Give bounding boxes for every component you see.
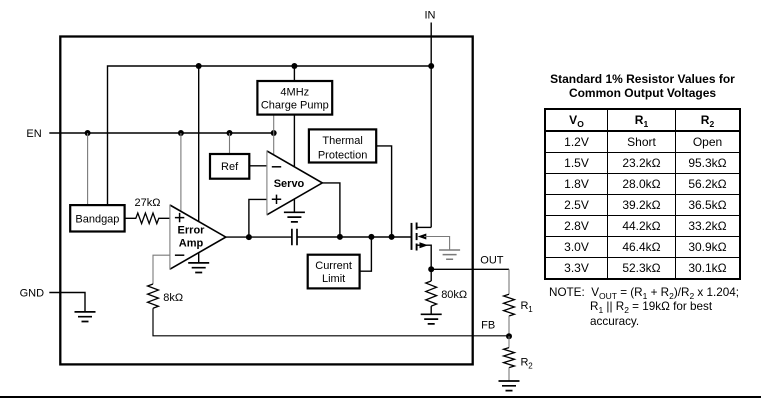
- pin OUT label: [480, 254, 504, 266]
- node gate / current limit: [368, 234, 374, 240]
- node OUT: [428, 266, 434, 272]
- node top-rail / IN: [428, 63, 434, 69]
- transistor source arrow: [420, 242, 429, 248]
- wire gate line: [297, 236, 412, 238]
- svg-text:Ref: Ref: [221, 161, 239, 173]
- resistor R2 zigzag: [504, 348, 515, 368]
- servo plus: [272, 195, 281, 204]
- svg-text:Protection: Protection: [318, 149, 368, 161]
- svg-text:80kΩ: 80kΩ: [441, 289, 467, 301]
- wire 8k to FB: [153, 308, 509, 336]
- wire charge pump to EN node to servo top: [273, 115, 275, 156]
- pin EN label: [26, 128, 41, 140]
- svg-text:Current: Current: [315, 260, 352, 272]
- wire EN to ref box: [229, 133, 231, 154]
- ground symbol R2: [499, 381, 520, 391]
- resistor value table: [540, 72, 745, 280]
- node top-rail / charge-pump: [291, 63, 297, 69]
- wire error amp supply from top rail: [198, 66, 200, 221]
- svg-text:Servo: Servo: [274, 178, 305, 190]
- wire thermal protection to gate: [376, 146, 391, 237]
- capacitor plates: [292, 229, 297, 246]
- resistor R2 label: [521, 357, 534, 371]
- transistor body arrow: [418, 234, 427, 240]
- ground symbol servo: [284, 212, 305, 222]
- wire minus input to 8k: [153, 255, 170, 284]
- node gate / servo: [337, 234, 343, 240]
- svg-text:1: 1: [528, 305, 533, 314]
- wire EN to error-amp top: [180, 133, 182, 211]
- wire charge pump to servo supply: [293, 115, 295, 167]
- wire ref to servo minus: [249, 165, 267, 167]
- svg-text:27kΩ: 27kΩ: [135, 197, 161, 209]
- ground error amp stub: [198, 253, 200, 263]
- note text: [549, 286, 759, 329]
- ground symbol 80k: [421, 314, 442, 324]
- wire top supply rail: [108, 66, 432, 205]
- resistor R1 label: [521, 300, 534, 314]
- op-amp error amp triangle: [170, 205, 226, 269]
- svg-text:GND: GND: [20, 288, 44, 300]
- wire error amp output: [226, 236, 292, 238]
- wire GND: [49, 293, 85, 312]
- wire servo output to gate line: [322, 183, 340, 237]
- ground symbol GND: [75, 312, 96, 322]
- transistor pass PMOS gate plate: [411, 223, 413, 250]
- svg-text:Amp: Amp: [179, 238, 204, 250]
- pin GND label: [20, 288, 44, 300]
- wire 80k to ground: [430, 306, 432, 314]
- resistor R1 zigzag: [504, 294, 515, 316]
- svg-text:EN: EN: [26, 128, 41, 140]
- pin FB label: [481, 319, 495, 331]
- transistor source tap: [417, 245, 432, 269]
- svg-text:4MHz: 4MHz: [280, 86, 309, 98]
- IC outer box: [60, 37, 472, 365]
- wire R2 to ground: [508, 368, 510, 381]
- svg-text:Error: Error: [178, 225, 206, 237]
- node top-rail / error-amp supply: [196, 63, 202, 69]
- servo minus: [272, 166, 281, 168]
- op-amp servo triangle: [267, 151, 322, 215]
- svg-text:Charge Pump: Charge Pump: [261, 99, 329, 111]
- wire R2 top: [508, 336, 510, 347]
- svg-text:Thermal: Thermal: [322, 135, 362, 147]
- svg-text:Limit: Limit: [322, 273, 345, 285]
- wire EN horizontal: [49, 132, 274, 134]
- node EN / bandgap: [85, 130, 91, 136]
- wire IN vertical: [430, 23, 432, 228]
- wire current limit to gate: [360, 237, 372, 271]
- node EN / servo: [271, 130, 277, 136]
- svg-text:FB: FB: [481, 319, 495, 331]
- wire charge pump to top rail: [293, 66, 295, 81]
- current limit box: [308, 255, 360, 289]
- svg-text:Bandgap: Bandgap: [75, 214, 119, 226]
- svg-text:IN: IN: [425, 9, 436, 21]
- svg-text:OUT: OUT: [480, 254, 504, 266]
- wire EN to bandgap: [87, 133, 89, 205]
- svg-text:8kΩ: 8kΩ: [163, 292, 183, 304]
- node EN / error-amp enable: [178, 130, 184, 136]
- wire R1 top: [508, 269, 510, 294]
- resistor 80k label: [441, 289, 467, 301]
- resistor 8k zigzag: [148, 284, 159, 308]
- transistor drain tap: [417, 226, 432, 228]
- wire R1 to FB node: [508, 316, 510, 336]
- ground symbol body: [439, 250, 460, 259]
- ref box: [210, 154, 249, 179]
- node FB: [506, 333, 512, 339]
- resistor 27k label: [135, 197, 161, 209]
- resistor 80k zigzag: [426, 281, 437, 306]
- bottom horizontal rule: [0, 396, 761, 398]
- transistor channel dashed: [416, 223, 418, 251]
- wire body to ground: [424, 237, 450, 251]
- wire 80k top: [430, 269, 432, 281]
- node EN / ref: [227, 130, 233, 136]
- thermal protection box: [309, 129, 376, 162]
- ground symbol error amp: [188, 263, 209, 273]
- resistor R 27k zigzag: [125, 213, 170, 224]
- pin IN label: [425, 9, 436, 21]
- node error amp output: [246, 234, 252, 240]
- bandgap box: [70, 205, 124, 231]
- error amp minus: [175, 254, 184, 256]
- node gate / thermal: [389, 234, 395, 240]
- charge pump box: [257, 81, 332, 115]
- wire servo plus input: [249, 199, 267, 237]
- resistor 8k label: [163, 292, 183, 304]
- svg-text:2: 2: [528, 362, 533, 371]
- error amp plus: [175, 213, 184, 222]
- wire OUT: [431, 268, 509, 270]
- ground servo stub: [293, 199, 295, 213]
